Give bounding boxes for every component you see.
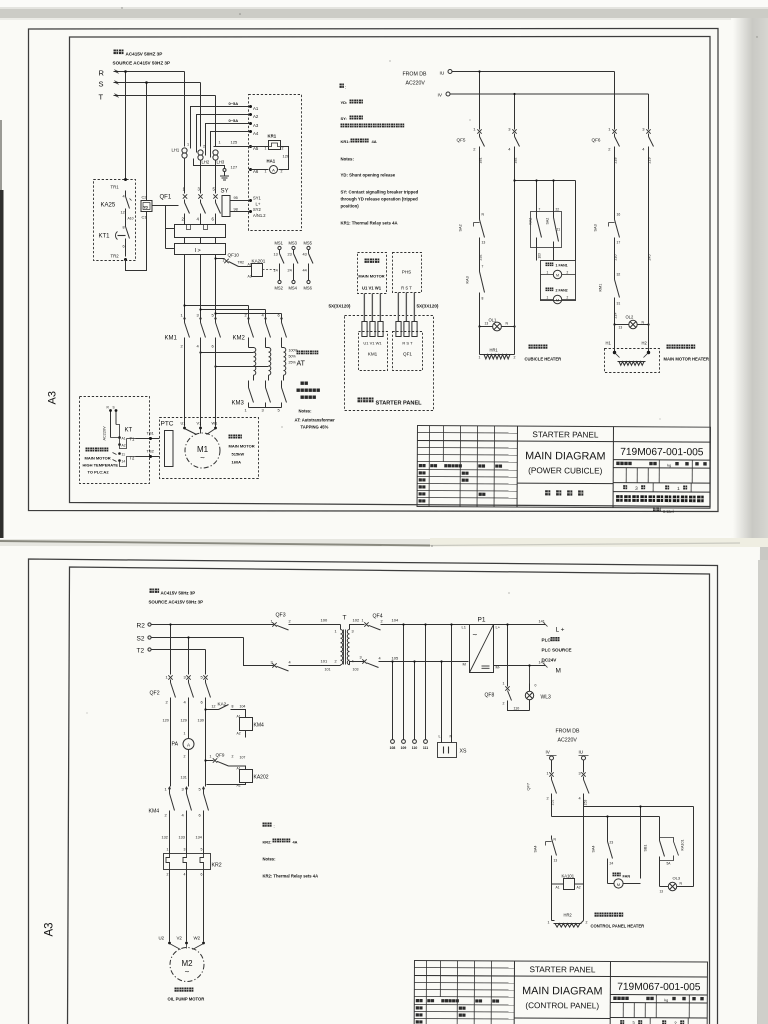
svg-text:QF2: QF2 [150,691,160,697]
title right info rows [610,1002,707,1005]
svg-text:QF1: QF1 [160,195,172,201]
svg-text:SOURCE AC415V 50HZ 3P: SOURCE AC415V 50HZ 3P [113,61,171,66]
svg-text:IV: IV [438,93,443,99]
terminal circles 108-111 [391,740,395,744]
terminal A2 [249,113,252,116]
svg-text:U2: U2 [159,936,165,941]
svg-text:111: 111 [423,746,428,750]
svg-text:3: 3 [184,848,186,852]
svg-text:KR1: KR1 [268,134,277,139]
wire R2 drop to QF2 [170,625,172,675]
svg-text:24: 24 [288,269,292,273]
fan control contacts KA2 SA2 [536,181,538,213]
svg-text:HR1: HR1 [490,348,499,353]
svg-text:M: M [556,274,559,278]
svg-text:C2: C2 [142,195,148,200]
svg-text:L+: L+ [496,625,501,630]
svg-text:1: 1 [548,921,550,925]
svg-text:kg: kg [664,998,668,1002]
svg-text:1: 1 [335,630,337,634]
svg-text:13: 13 [554,859,558,863]
svg-text:FROM DB: FROM DB [556,729,580,735]
svg-text:A2: A2 [122,444,126,448]
svg-text:SA3: SA3 [594,224,598,231]
svg-text:16: 16 [617,213,621,217]
svg-text:KA25: KA25 [101,203,116,209]
svg-text:KM1: KM1 [599,284,603,292]
svg-text:KT1: KT1 [99,234,111,240]
svg-text:110: 110 [412,746,418,750]
wire A5 row / label 125 [214,146,251,148]
wire CT LH3 secondary to terminal A4 [211,132,251,158]
KT contact 11/14 [118,452,121,455]
svg-text:KM1: KM1 [165,336,178,342]
note AT chinese [301,382,308,385]
svg-text:13: 13 [482,241,486,245]
svg-text:2: 2 [567,271,569,275]
svg-text:1: 1 [479,356,481,360]
top gray scan band [0,9,768,18]
wire QF5 right branch [514,161,516,355]
svg-text:SY: SY [221,189,229,195]
svg-text:104: 104 [240,705,246,709]
svg-text:TO PLC:A2: TO PLC:A2 [88,470,110,475]
terminal A6 [249,168,252,171]
label main motor heater [667,345,696,349]
svg-text:103: 103 [353,668,359,672]
svg-text:YD:: YD: [341,100,348,105]
wire phase drops to KM1 [184,238,186,244]
wires main motor to fuses [364,294,366,322]
svg-text:43: 43 [303,253,307,257]
svg-text:S2: S2 [137,636,145,643]
svg-text:L: L [439,735,441,739]
svg-text:position): position) [341,204,360,209]
motor M1 [185,433,220,468]
terminal strip box [249,95,302,231]
wire QF2 outputs [170,704,172,787]
svg-text:129: 129 [181,719,187,723]
wire CT LH2 secondary to terminal A3 [206,124,251,156]
svg-text:SB1: SB1 [644,845,648,852]
svg-text:S: S [113,406,115,410]
svg-text:4A: 4A [372,139,377,144]
svg-text:L+: L+ [256,202,261,207]
svg-text:CUBICLE HEATER: CUBICLE HEATER [525,357,562,362]
svg-text:2: 2 [335,660,337,664]
svg-text:160A: 160A [232,460,242,465]
svg-text:22: 22 [556,208,560,212]
svg-text:PLC SOURCE: PLC SOURCE [542,648,572,653]
svg-text:2: 2 [381,620,383,624]
svg-text:A4: A4 [253,131,259,136]
svg-text:(POWER CUBICLE): (POWER CUBICLE) [528,466,602,475]
svg-text:LH3: LH3 [217,160,225,165]
svg-text:2: 2 [184,755,186,759]
svg-text:2: 2 [514,356,516,360]
svg-text:A2: A2 [253,114,259,119]
net label source AC415V 50Hz 3P page2 [150,589,160,593]
svg-text:PA: PA [172,742,179,748]
svg-text:120: 120 [163,719,169,723]
svg-text:KM2: KM2 [233,336,246,342]
svg-text:HR2: HR2 [564,913,573,918]
svg-text:126: 126 [283,154,290,159]
svg-text:7: 7 [482,265,484,269]
motor M1 leads [184,344,186,427]
svg-text:6: 6 [123,245,125,249]
svg-text:H2: H2 [642,341,648,346]
svg-text:125: 125 [231,140,238,145]
svg-text:11: 11 [122,453,126,457]
svg-text:1: 1 [362,619,364,623]
terminal A3 [249,122,252,125]
svg-text:XS: XS [460,749,467,755]
svg-text:7: 7 [539,208,541,212]
notes block chinese [340,84,344,88]
wire AT tap link 1 [201,352,254,354]
svg-text:CONTROL PANEL HEATER: CONTROL PANEL HEATER [591,924,645,929]
wire S bus [114,82,201,84]
svg-text:133: 133 [179,836,185,840]
svg-text:1: 1 [210,755,212,759]
svg-text:SY1: SY1 [253,196,261,201]
title sheet count [623,485,627,489]
wire trip link [165,206,167,249]
svg-text:QF7: QF7 [526,783,531,791]
label cubicle heater [529,345,548,349]
wire TR2 to YD return [126,212,147,271]
svg-text:QF9: QF9 [216,753,225,758]
svg-text:QF1: QF1 [403,352,412,357]
terminal SY1 [249,199,252,202]
svg-text:U1: U1 [181,421,186,426]
wire S2 drop to QF2 [188,638,190,675]
svg-text:~: ~ [200,454,205,463]
wire bus lower right [552,816,660,818]
svg-text:5: 5 [201,848,203,852]
svg-text::: : [274,824,275,829]
svg-text:TR2: TR2 [111,254,120,259]
wire IV to QF6 [648,94,650,130]
svg-text:24: 24 [610,862,614,866]
page 2 paper [0,546,760,1024]
svg-text:AT: AT [297,361,306,368]
svg-text:151: 151 [551,800,555,806]
protection block upper [175,225,226,238]
autotransformer AT coils [248,344,250,348]
svg-text:A/N1.2: A/N1.2 [253,213,266,218]
title row STARTER PANEL [417,440,710,442]
svg-text:107: 107 [240,756,246,760]
svg-text:A10: A10 [128,217,134,221]
fan FAN2 [546,288,554,292]
svg-text:A3: A3 [47,391,59,404]
wire IU bus [452,71,615,73]
svg-text:TAPPING 45%: TAPPING 45% [301,425,329,430]
svg-text:IU: IU [579,750,584,755]
svg-text:103: 103 [538,253,542,259]
terminal A1 [249,105,252,108]
title construction design [545,490,550,495]
svg-text:STARTER PANEL: STARTER PANEL [532,430,598,439]
svg-text:153: 153 [584,800,588,806]
svg-text:TR1: TR1 [111,185,120,190]
svg-text:109: 109 [401,746,407,750]
svg-text:MS1: MS1 [275,241,284,246]
wires KR2 to motor M2 [169,870,171,942]
svg-text:QF10: QF10 [228,253,240,258]
page 1 inner frame [70,37,711,507]
svg-text:2: 2 [282,147,284,151]
svg-text:2 FAN2: 2 FAN2 [556,289,568,293]
svg-text:102: 102 [353,618,360,623]
svg-text:KM1: KM1 [368,352,378,357]
svg-text:HIGH TEMPERATE: HIGH TEMPERATE [83,463,119,468]
terminal SY2 [249,210,252,213]
svg-text:8: 8 [232,705,234,709]
svg-text:5X(3X120): 5X(3X120) [329,304,351,309]
svg-text:~: ~ [185,968,190,977]
svg-text:101: 101 [321,659,328,664]
svg-text:MAIN MOTOR: MAIN MOTOR [85,456,111,461]
wire P1 output M [494,665,546,667]
svg-text:105: 105 [392,656,399,661]
svg-text:AC415V 50HZ 3P: AC415V 50HZ 3P [126,52,163,57]
svg-text:132: 132 [162,836,168,840]
motor box dashed [160,418,259,479]
wire S to shunt release YD [146,83,148,201]
svg-text:AC415V 50Hz 3P: AC415V 50Hz 3P [161,591,196,596]
wire phase R QF1 feed [184,159,186,194]
svg-text:through YD release operation (: through YD release operation (tripped [341,197,419,202]
wire S2 bus [152,637,244,639]
svg-text:KM4: KM4 [149,809,160,815]
label control panel heater [595,913,624,917]
title block page 2 [414,961,707,1024]
terminal A5 [249,145,252,148]
svg-text:QF3: QF3 [276,613,286,619]
svg-text:KM3: KM3 [232,401,245,407]
svg-text:13: 13 [274,253,278,257]
svg-text:TB2: TB2 [147,449,155,454]
wire T bus [114,95,216,97]
svg-text:719M067-001-005: 719M067-001-005 [617,982,701,993]
wire SY to SY1 / label 95 [230,200,251,202]
overcurrent relay I> [175,244,226,255]
svg-text:1: 1 [547,296,549,300]
svg-text:134: 134 [196,836,202,840]
svg-text:Notes:: Notes: [299,409,312,414]
svg-text:I >: I > [195,248,201,254]
svg-text:WL3: WL3 [541,695,552,701]
svg-text:8: 8 [123,226,125,230]
wire fan feeder [515,180,576,182]
contactor cubicle KM1 box [359,332,388,371]
terminal A4 [249,130,252,133]
gap between pages [0,539,768,548]
svg-text:719M067-001-005: 719M067-001-005 [620,447,704,458]
svg-text:MS6: MS6 [304,286,313,291]
svg-text:(CONTROL PANEL): (CONTROL PANEL) [525,1001,599,1010]
svg-text:HA1: HA1 [267,159,276,164]
page 1 outer frame [29,29,719,512]
svg-text:V1: V1 [197,421,202,426]
svg-text:OL3: OL3 [673,876,681,881]
net label: source AC415V 50HZ 3P [114,50,124,55]
wire CT LH1 secondary to terminal A2 [197,115,251,153]
svg-text:YD: Shunt opening release: YD: Shunt opening release [341,173,396,178]
wire CT commons to ground [194,159,225,169]
svg-text:V2: V2 [177,936,183,941]
title company name [616,495,704,502]
svg-text:4A: 4A [293,840,298,845]
svg-text:~: ~ [473,631,478,640]
page 2 outer frame [29,559,718,1024]
svg-text:N: N [450,735,453,739]
svg-text:QF6: QF6 [592,138,601,143]
svg-text:SA4: SA4 [592,846,596,853]
svg-text:SY2: SY2 [253,207,261,212]
svg-text:2: 2 [586,921,588,925]
svg-text:13: 13 [485,322,489,326]
svg-text:1: 1 [167,848,169,852]
svg-text:LH2: LH2 [202,160,210,165]
starter panel dashed box [345,316,434,411]
wire phase T QF1 feed [215,161,217,194]
svg-text:A2: A2 [577,886,581,890]
svg-text:KR2:: KR2: [263,840,272,845]
svg-text:1 FAN1: 1 FAN1 [556,264,568,268]
svg-text:A1: A1 [253,106,259,111]
svg-text:2: 2 [167,873,169,877]
sheet area note [653,507,661,511]
fan FAN page2 [613,873,621,877]
svg-text:T2: T2 [137,648,145,655]
svg-text:MAIN MOTOR: MAIN MOTOR [229,444,255,449]
thermal relay KR1 [251,146,269,148]
svg-text:U1 V1 W1: U1 V1 W1 [362,286,382,291]
svg-text:L1: L1 [462,625,467,630]
svg-text:1: 1 [547,772,549,776]
plug box PHS [393,253,422,293]
left dark scan strip [0,190,4,538]
svg-text:U1 V1 W1: U1 V1 W1 [363,341,382,346]
wires PHS to fuses [398,293,400,322]
wire transformer secondary bottom [350,662,365,665]
ground symbol [224,172,226,177]
svg-text:STARTER PANEL: STARTER PANEL [529,965,595,974]
wire drops to terminals [403,625,405,740]
title left grid [414,966,514,969]
svg-text:6: 6 [201,873,203,877]
svg-text:100: 100 [321,618,328,623]
label autotransformer AT [297,351,319,355]
wire AT tap link 2 [216,366,269,368]
svg-text:LH1: LH1 [172,148,180,153]
svg-text:KT: KT [125,428,133,434]
wire YD to QF1 trip [152,205,179,207]
svg-text:A3: A3 [253,123,259,128]
svg-text:PHS: PHS [402,270,411,275]
relay contact KA2 to KM4 [206,709,216,711]
svg-text:AC220V: AC220V [558,738,578,744]
temperature relay box KT [80,397,150,484]
svg-text:R S T: R S T [401,286,412,291]
svg-text:515kW: 515kW [232,452,245,457]
title block page 1 [417,426,710,515]
relay box KA25/KT1 [94,180,136,261]
title sheet count [620,1020,624,1024]
scan specks [239,13,241,15]
svg-text:13: 13 [619,326,623,330]
svg-text:TR2: TR2 [238,261,245,265]
svg-text:KR1:: KR1: [341,139,350,144]
fan box [541,261,576,301]
svg-text:3: 3 [360,656,362,660]
svg-text:KM4: KM4 [254,723,265,729]
svg-text:T1: T1 [130,437,136,442]
wire phase T drop [215,96,217,147]
svg-text:5X(3X120): 5X(3X120) [417,304,439,309]
svg-text:21: 21 [557,228,561,232]
svg-text:2: 2 [232,755,234,759]
svg-text:KR2: Thermal Relay sets 4A: KR2: Thermal Relay sets 4A [263,874,319,879]
wire phase S drop [200,83,202,147]
svg-text:1: 1 [265,170,267,174]
page 1 paper [0,20,768,536]
svg-text:M: M [463,662,466,667]
svg-text:98: 98 [234,208,238,212]
svg-text:PTC: PTC [161,421,174,428]
svg-text:TB1: TB1 [147,431,155,436]
svg-text:13: 13 [660,890,664,894]
svg-text:17: 17 [617,241,621,245]
wire KM2 feeders [185,305,249,307]
page2 notes block [263,823,272,827]
wire IV to QF5 [514,94,516,130]
svg-text:4: 4 [579,797,581,801]
svg-text:MAIN MOTOR: MAIN MOTOR [358,274,384,279]
thermal relay KR2 [164,854,211,870]
wire S2 to QF3 lower pole [244,638,274,666]
wire QF6 left branch [614,161,616,217]
title block frame [417,426,710,509]
svg-text:2: 2 [203,145,205,149]
svg-text:kg: kg [667,463,671,467]
svg-text:M: M [556,299,559,303]
breaker cubicle QF1 box [393,332,423,371]
wire to heater HR2 [551,885,553,921]
wire KR1 to HA1 loop / label 126 [279,147,289,170]
wire P1 output L+ [494,624,546,626]
svg-text:1: 1 [547,271,549,275]
breaker QF8 [507,625,509,687]
svg-text:AT: Autotransformer: AT: Autotransformer [295,418,336,423]
svg-text:IU: IU [440,71,445,77]
svg-text:2: 2 [547,797,549,801]
svg-text:MS2: MS2 [275,286,284,291]
svg-text:W1: W1 [212,421,218,426]
svg-text:A2: A2 [248,275,252,279]
terminal TR2 [124,258,127,261]
page 2 inner frame [68,567,710,1024]
svg-text:H1: H1 [606,341,612,346]
wire R2 bus [152,624,274,626]
svg-text:2: 2 [289,620,291,624]
svg-text:4: 4 [184,873,186,877]
svg-text:12: 12 [121,211,125,215]
